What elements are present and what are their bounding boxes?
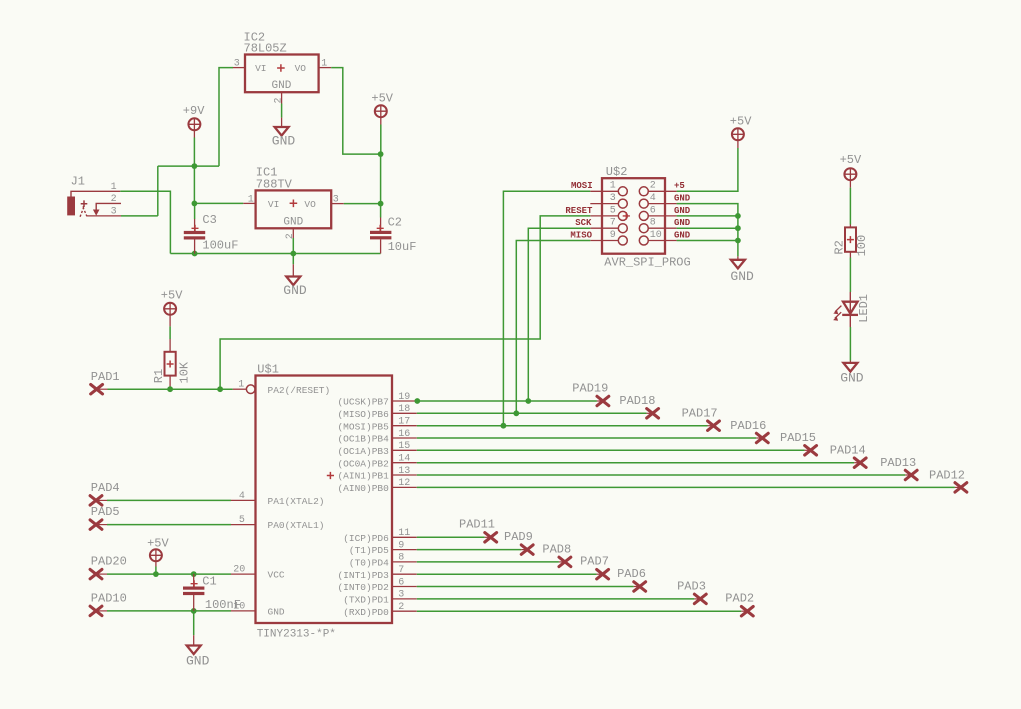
+9V symbol pin (193, 130, 195, 137)
U$1 pin 13 lead (392, 474, 417, 476)
svg-text:PAD9: PAD9 (504, 530, 533, 544)
pad PAD14 (854, 458, 866, 467)
svg-text:VO: VO (295, 63, 307, 74)
junction R1 bottom (167, 386, 173, 392)
svg-text:GND: GND (272, 134, 296, 149)
wire IC1 GND to rail and below (292, 238, 294, 264)
pad PAD16 (756, 433, 768, 442)
svg-text:10K: 10K (177, 361, 191, 383)
wire J1 pin1 to gnd rail (120, 191, 170, 253)
U$2 pin 10 pad circle (639, 236, 648, 245)
U$2 pin 8 pad circle (639, 224, 648, 233)
+5V symbol pin (R1) (169, 315, 171, 327)
U$2 pin 7 pad circle (618, 224, 627, 233)
svg-text:PAD20: PAD20 (91, 555, 127, 569)
junction gnd bus pin6 (735, 213, 741, 219)
C1 gnd symbol pin (193, 635, 195, 645)
wire PAD5 to U$1 (107, 524, 231, 526)
wire U$1 to PAD3 (417, 598, 695, 600)
svg-text:PAD15: PAD15 (780, 431, 816, 445)
PAD11 stub (485, 536, 491, 538)
wire ground rail (170, 253, 380, 255)
PAD1 stub (97, 388, 108, 390)
U$2 pin 4 pad circle (639, 199, 648, 208)
svg-text:GND: GND (674, 194, 691, 204)
C1 bottom pin (193, 595, 195, 611)
C3 top pin (194, 219, 196, 231)
svg-text:VCC: VCC (268, 570, 285, 581)
wire U$1 to PAD14 (417, 462, 854, 464)
C1 top pin (193, 574, 195, 587)
svg-text:100nF: 100nF (205, 598, 241, 612)
svg-text:17: 17 (398, 417, 410, 428)
svg-text:PA0(XTAL1): PA0(XTAL1) (268, 520, 325, 531)
svg-text:2: 2 (650, 181, 656, 192)
svg-text:2: 2 (285, 233, 296, 239)
wire SCK net (528, 228, 590, 401)
wire IC1 VO to +5V column (344, 203, 381, 205)
wire +5V to R2 (849, 188, 851, 225)
svg-text:MISO: MISO (570, 230, 592, 240)
J1 pin 3 lead (87, 215, 121, 217)
svg-text:+5V: +5V (840, 153, 862, 167)
svg-text:LED1: LED1 (857, 294, 871, 323)
U$1 pin 18 lead (392, 412, 417, 414)
svg-text:13: 13 (398, 466, 410, 477)
U$2 pin 9 lead (590, 240, 618, 242)
svg-text:788TV: 788TV (256, 177, 293, 191)
wire C3 top (194, 203, 196, 219)
svg-text:9: 9 (398, 540, 404, 551)
svg-text:4: 4 (650, 193, 656, 204)
R1 origin cross (167, 361, 174, 368)
svg-text:+5V: +5V (161, 288, 183, 302)
IC1 gnd symbol pin (292, 264, 294, 276)
U$1 pin 1 lead (233, 388, 247, 390)
junction C3 bottom (192, 251, 198, 257)
PAD12 stub (955, 486, 961, 488)
svg-text:U$2: U$2 (606, 165, 628, 179)
wire PAD10 to U$1 (107, 610, 231, 612)
IC1 body 788TV (256, 190, 332, 228)
svg-text:PAD10: PAD10 (91, 592, 127, 606)
wire R2 to LED1 (849, 258, 851, 293)
pad PAD19 (597, 396, 609, 405)
svg-text:1: 1 (248, 194, 254, 205)
svg-text:(ICP)PD6: (ICP)PD6 (343, 533, 389, 544)
U$1 pin 9 lead (392, 549, 417, 551)
pad PAD13 (905, 470, 917, 479)
svg-text:(INT1)PD3: (INT1)PD3 (337, 570, 389, 581)
wire +5V node down to IC1 VO / C2 (380, 154, 382, 217)
PAD8 stub (559, 561, 565, 563)
U$1 pin 12 lead (392, 486, 417, 488)
U$2 origin cross (623, 212, 630, 219)
R1 top pin (169, 339, 171, 352)
U$2 pin 3 pad circle (618, 199, 627, 208)
svg-text:1: 1 (321, 59, 327, 70)
svg-text:(AIN1)PB1: (AIN1)PB1 (337, 471, 389, 482)
C1 polarity/origin cross (191, 580, 198, 587)
U$1 origin cross (327, 472, 334, 479)
svg-text:+9V: +9V (183, 104, 205, 118)
svg-text:7: 7 (610, 218, 616, 229)
svg-text:10uF: 10uF (388, 240, 417, 254)
svg-text:5: 5 (239, 515, 245, 526)
svg-text:PAD11: PAD11 (459, 518, 495, 532)
PAD7 stub (597, 573, 603, 575)
svg-text:PAD3: PAD3 (677, 579, 706, 593)
svg-text:(TXD)PD1: (TXD)PD1 (343, 595, 389, 606)
IC2 gnd symbol pin (281, 118, 283, 127)
svg-text:(AIN0)PB0: (AIN0)PB0 (337, 483, 389, 494)
svg-text:C3: C3 (202, 213, 216, 227)
junction RESET riser (217, 386, 223, 392)
junction +5V node (378, 151, 384, 157)
svg-text:(INT0)PD2: (INT0)PD2 (337, 582, 389, 593)
wire U$1 to PAD6 (417, 586, 634, 588)
svg-text:14: 14 (398, 454, 410, 465)
IC2 pin 1 (VO) stub (319, 67, 332, 69)
wire +5V to VCC row (155, 567, 157, 575)
pad PAD1 (91, 385, 103, 394)
svg-text:100: 100 (855, 235, 869, 257)
svg-text:(UCSK)PB7: (UCSK)PB7 (337, 397, 388, 408)
wire U$1 to PAD7 (417, 573, 597, 575)
svg-text:12: 12 (398, 478, 410, 489)
U$1 pin 6 lead (392, 586, 417, 588)
pad PAD15 (805, 446, 817, 455)
svg-text:PAD17: PAD17 (682, 406, 718, 420)
+9V supply symbol (188, 118, 200, 130)
+5V symbol pin (LED) (849, 180, 851, 188)
PAD5 stub (96, 524, 107, 526)
ground symbol below U$2 (731, 260, 745, 269)
svg-text:GND: GND (186, 653, 210, 668)
U$2 pin 6 lead (648, 215, 676, 217)
svg-text:RESET: RESET (565, 206, 593, 216)
U$2 pin 1 pad circle (618, 187, 627, 196)
svg-text:1: 1 (238, 380, 244, 391)
junction MISO / PB6 (513, 410, 519, 416)
U$2 pin 1 lead (590, 190, 618, 192)
junction +9V rail crossing (192, 163, 198, 169)
wire LED1 to gnd (849, 327, 851, 361)
svg-text:PAD18: PAD18 (619, 394, 655, 408)
pad PAD8 (559, 557, 571, 566)
wire +5V to R1 (169, 326, 171, 339)
svg-text:19: 19 (398, 392, 410, 403)
pad PAD9 (521, 545, 533, 554)
svg-text:PAD16: PAD16 (730, 419, 766, 433)
junction +9V / IC1 VI / C3 (192, 201, 198, 207)
svg-text:2: 2 (398, 602, 404, 613)
svg-text:3: 3 (398, 590, 404, 601)
pad PAD4 (90, 496, 102, 505)
PAD4 stub (96, 499, 107, 501)
junction SCK / PB7 (525, 398, 531, 404)
U$2 gnd symbol pin (737, 256, 739, 259)
U$1 pin 19 lead (392, 400, 417, 402)
svg-text:PA2(/RESET): PA2(/RESET) (268, 385, 331, 396)
+5V supply symbol (R1) (164, 303, 176, 315)
svg-text:15: 15 (398, 441, 410, 452)
wire PAD1 to U$1 pin1 (108, 388, 233, 390)
U$1 pin 1 inversion bubble (246, 385, 255, 394)
svg-text:(MISO)PB6: (MISO)PB6 (337, 409, 389, 420)
U$2 pin 9 pad circle (618, 236, 627, 245)
svg-text:18: 18 (398, 404, 410, 415)
resistor R2 (845, 227, 856, 251)
ground symbol below C1 (187, 646, 201, 655)
PAD9 stub (521, 549, 527, 551)
svg-text:3: 3 (333, 194, 339, 205)
LED LED1 (833, 292, 858, 327)
junction +5V VCC (153, 571, 159, 577)
svg-text:J1: J1 (71, 174, 85, 188)
U$1 pin 2 lead (392, 610, 417, 612)
svg-text:AVR_SPI_PROG: AVR_SPI_PROG (604, 256, 690, 270)
svg-text:(OC1A)PB3: (OC1A)PB3 (337, 446, 389, 457)
svg-text:11: 11 (398, 528, 410, 539)
C2 polarity/origin cross (377, 225, 384, 232)
pad PAD12 (955, 483, 967, 492)
svg-text:5: 5 (610, 205, 616, 216)
U$2 pin 2 pad circle (639, 187, 648, 196)
svg-text:PAD12: PAD12 (929, 469, 965, 483)
IC1 origin cross (290, 200, 298, 208)
U$2 pin 7 lead (590, 227, 618, 229)
R2 bottom pin (849, 252, 851, 258)
wire U$2 pin10 gnd (677, 240, 738, 242)
svg-text:16: 16 (398, 429, 410, 440)
svg-text:U$1: U$1 (257, 362, 279, 376)
wire +5 from U$2 pin2 (677, 148, 738, 191)
wire +9V rail horizontal (158, 165, 219, 167)
svg-text:VO: VO (304, 199, 316, 210)
capacitor C2 (370, 231, 391, 240)
U$1 pin 4 lead (231, 499, 256, 501)
C3 bottom pin (194, 240, 196, 254)
wire U$1 to PAD12 (417, 486, 955, 488)
wire U$1 to PAD16 (417, 437, 757, 439)
svg-text:PAD13: PAD13 (880, 456, 916, 470)
svg-text:VI: VI (268, 199, 279, 210)
wire +9V down to junctions (193, 138, 195, 204)
pad PAD7 (597, 570, 609, 579)
U$2 pin 5 lead (590, 215, 618, 217)
svg-text:GND: GND (674, 206, 691, 216)
wire +9V vertical to J1 pin3 level (157, 166, 159, 216)
C2 bottom pin (380, 239, 382, 253)
wire C1 to gnd (193, 611, 195, 635)
svg-text:(OC1B)PB4: (OC1B)PB4 (337, 434, 389, 445)
+5V symbol pin (U$2) (737, 140, 739, 148)
pad PAD11 (485, 533, 497, 542)
svg-text:PA1(XTAL2): PA1(XTAL2) (268, 496, 325, 507)
J1 connector body (67, 197, 75, 216)
wire PAD4 to U$1 (107, 499, 231, 501)
svg-text:PAD8: PAD8 (542, 542, 571, 556)
+5V supply symbol (U$2) (732, 128, 744, 140)
junction PB7 pin19 (414, 398, 420, 404)
wire U$1 to PAD19 (417, 400, 597, 402)
U$2 pin 6 pad circle (639, 211, 648, 220)
junction gnd bus pin8 (735, 225, 741, 231)
J1 origin cross (81, 200, 88, 207)
wire U$1 to PAD9 (417, 549, 521, 551)
U$1 pin 16 lead (392, 437, 417, 439)
wire U$1 to PAD11 (417, 536, 485, 538)
capacitor C1 (183, 587, 204, 596)
pad PAD2 (741, 607, 753, 616)
IC1 pin 2 (GND) stub (292, 228, 294, 238)
+5V supply symbol (LED) (844, 168, 856, 180)
ground symbol below LED1 (843, 363, 857, 372)
LED gnd symbol pin (849, 361, 851, 363)
wire IC2 VO to +5V node (331, 68, 380, 155)
junction gnd bus pin10 (735, 238, 741, 244)
svg-text:PAD7: PAD7 (580, 555, 609, 569)
U$1 pin 10 lead (231, 610, 256, 612)
PAD6 stub (634, 586, 640, 588)
+5V supply symbol (VCC) (150, 549, 162, 561)
U$1 pin 3 lead (392, 598, 417, 600)
junction C1 bottom (191, 608, 197, 614)
U$1 pin 7 lead (392, 573, 417, 575)
+5V supply symbol (top) (375, 105, 387, 117)
pad PAD5 (90, 520, 102, 529)
svg-text:3: 3 (111, 207, 117, 218)
wire IC2 VI to +9V rail (219, 68, 233, 167)
U$2 pin 8 lead (648, 227, 676, 229)
svg-text:8: 8 (398, 553, 404, 564)
C2 top pin (380, 218, 382, 232)
wire U$1 to PAD18 (417, 412, 647, 414)
svg-text:100uF: 100uF (202, 239, 238, 253)
svg-text:TINY2313-*P*: TINY2313-*P* (257, 629, 336, 641)
svg-text:(OC0A)PB2: (OC0A)PB2 (337, 458, 389, 469)
wire U$1 to PAD13 (417, 474, 905, 476)
wire MOSI net (503, 191, 590, 425)
pad PAD6 (634, 582, 646, 591)
wire J1 pin3 to +9V riser (121, 215, 158, 217)
svg-text:3: 3 (610, 193, 616, 204)
svg-text:GND: GND (268, 607, 285, 618)
svg-text:(T0)PD4: (T0)PD4 (349, 558, 389, 569)
U$1 body TINY2313 (256, 376, 393, 624)
svg-text:GND: GND (283, 217, 303, 229)
PAD15 stub (805, 449, 811, 451)
IC1 pin 1 (VI) stub (243, 202, 255, 204)
pad PAD17 (708, 421, 720, 430)
svg-text:MOSI: MOSI (571, 181, 593, 191)
ground symbol below IC2 (275, 127, 289, 136)
wire +5V down (380, 125, 382, 155)
wire U$1 to PAD17 (417, 425, 708, 427)
pad PAD3 (694, 594, 706, 603)
PAD13 stub (905, 474, 911, 476)
C3 polarity/origin cross (192, 225, 199, 232)
svg-text:PAD5: PAD5 (91, 505, 120, 519)
U$2 body AVR_SPI_PROG (602, 178, 665, 254)
svg-text:20: 20 (233, 565, 245, 576)
R1 bottom pin (169, 376, 171, 390)
U$2 pin 5 pad circle (618, 211, 627, 220)
pad PAD10 (90, 606, 102, 615)
svg-text:C1: C1 (202, 575, 216, 589)
wire U$1 to PAD8 (417, 561, 559, 563)
wire RESET net (upper) (220, 216, 590, 389)
svg-text:(MOSI)PB5: (MOSI)PB5 (337, 421, 389, 432)
svg-text:(RXD)PD0: (RXD)PD0 (343, 607, 389, 618)
svg-text:PAD1: PAD1 (91, 370, 120, 384)
PAD17 stub (708, 425, 714, 427)
ground symbol below IC1 (286, 277, 300, 286)
PAD10 stub (96, 610, 107, 612)
svg-text:9: 9 (610, 230, 616, 241)
U$1 pin 14 lead (392, 462, 417, 464)
svg-text:R2: R2 (832, 240, 846, 254)
junction C1 top (191, 571, 197, 577)
svg-text:3: 3 (234, 59, 240, 70)
wire PAD20 to U$1 (107, 573, 231, 575)
svg-text:C2: C2 (388, 215, 402, 229)
J1 pin 1 lead (71, 191, 120, 196)
PAD16 stub (756, 437, 762, 439)
svg-text:6: 6 (650, 205, 656, 216)
U$2 pin 10 lead (648, 240, 676, 242)
IC2 origin cross (277, 64, 285, 72)
junction MOSI / PB5 (501, 423, 507, 429)
svg-text:SCK: SCK (575, 218, 592, 228)
svg-text:+5V: +5V (730, 115, 752, 129)
resistor R1 (165, 352, 176, 376)
svg-text:7: 7 (398, 565, 404, 576)
IC1 pin 3 (VO) stub (331, 203, 344, 205)
wire MISO net (516, 241, 590, 414)
wire IC2 GND pin to gnd symbol (281, 104, 283, 118)
wire U$2 pin8 gnd (677, 227, 738, 229)
R2 origin cross (847, 236, 854, 243)
svg-text:GND: GND (283, 283, 307, 298)
svg-text:+5V: +5V (147, 536, 169, 550)
U$1 pin 5 lead (231, 524, 256, 526)
PAD2 stub (741, 610, 747, 612)
svg-text:GND: GND (272, 80, 292, 92)
wire U$1 to PAD2 (417, 610, 742, 612)
svg-text:+5V: +5V (371, 91, 393, 105)
svg-text:10: 10 (650, 230, 662, 241)
R2 top pin (849, 225, 851, 228)
U$1 pin 11 lead (392, 536, 417, 538)
wire U$1 to PAD15 (417, 449, 805, 451)
svg-text:2: 2 (274, 97, 285, 103)
svg-text:PAD2: PAD2 (725, 592, 754, 606)
svg-text:PAD4: PAD4 (91, 481, 120, 495)
PAD19 stub (597, 400, 603, 402)
U$1 pin 20 lead (231, 573, 256, 575)
svg-text:PAD6: PAD6 (617, 567, 646, 581)
svg-text:R1: R1 (152, 369, 166, 383)
+5V symbol pin (top) (380, 117, 382, 124)
svg-text:+5: +5 (674, 181, 685, 191)
svg-text:8: 8 (650, 218, 656, 229)
PAD14 stub (854, 462, 860, 464)
svg-text:GND: GND (840, 371, 864, 386)
U$2 pin 2 lead (648, 190, 676, 192)
svg-text:PAD19: PAD19 (572, 381, 608, 395)
